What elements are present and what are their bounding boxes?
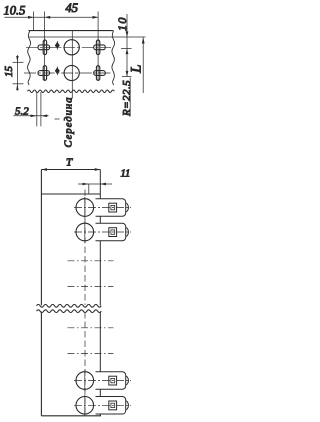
arrow 15 bottom xyxy=(16,84,18,90)
svg-text:10: 10 xyxy=(115,16,129,31)
arrow 11 right xyxy=(100,183,106,186)
arrow 5.2 right xyxy=(41,115,47,118)
hole circle top xyxy=(64,40,79,55)
strip bottom edge xyxy=(41,415,101,417)
tab 2 xyxy=(96,223,129,241)
contact hole circles xyxy=(76,199,94,217)
tab 3 xyxy=(96,372,129,390)
break wavy line upper xyxy=(37,304,102,307)
cross hole top-right xyxy=(94,40,106,55)
arrow 5.2 left xyxy=(31,115,37,118)
dimension 5.2 ext right xyxy=(40,92,42,126)
dimension 15 line xyxy=(16,55,18,91)
column centerline dashed lower xyxy=(84,312,86,414)
dimension 5.2 ext left xyxy=(36,92,38,126)
top view left break edge (wavy) xyxy=(28,31,31,85)
svg-text:15: 15 xyxy=(3,66,15,78)
arrow 11 left xyxy=(83,183,89,185)
arrow down at 76.5 xyxy=(126,71,129,77)
strip left edge upper xyxy=(40,170,42,306)
strip top edge with T dimension xyxy=(41,169,100,171)
arrow T right xyxy=(95,168,101,171)
arrow at x=44.6 pointing left xyxy=(45,16,51,19)
hole circle bottom xyxy=(64,65,79,80)
column centerline dashed upper xyxy=(84,190,86,306)
arrow up at 48.5 xyxy=(126,49,129,55)
tab 4 xyxy=(96,397,129,415)
svg-text:R=22.5: R=22.5 xyxy=(121,80,133,117)
top view right break edge (wavy) xyxy=(112,31,115,85)
arrow down at fold 37 xyxy=(126,31,129,37)
arrow at x=98.1 pointing right xyxy=(93,16,99,19)
rivet mark row1 xyxy=(55,42,60,49)
cross hole bottom-right xyxy=(94,66,106,81)
top view top edge xyxy=(29,30,114,32)
right holes column line xyxy=(97,12,99,82)
svg-text:45: 45 xyxy=(66,1,79,15)
dim line 5.2 xyxy=(31,115,49,117)
ext line 15 top xyxy=(13,61,24,63)
ext line 15 bottom xyxy=(13,83,24,85)
arrow T left xyxy=(41,168,47,171)
svg-text:11: 11 xyxy=(121,169,131,180)
extension line 10.5 left xyxy=(33,12,35,32)
dimension L line xyxy=(142,37,144,93)
svg-text:T: T xyxy=(66,157,73,169)
rivet mark row2 xyxy=(55,67,60,74)
dimension 10 and R line xyxy=(126,14,128,77)
underline 5.2 xyxy=(14,115,32,117)
hole row2 centerline xyxy=(24,72,111,74)
svg-text:Середина: Середина xyxy=(64,98,75,148)
arrow at x=33.6 pointing right xyxy=(28,16,34,19)
circles column centerline xyxy=(71,31,73,99)
break wavy line lower xyxy=(37,310,102,313)
svg-text:L: L xyxy=(129,64,145,73)
arrow 15 top xyxy=(16,56,18,62)
left holes column line xyxy=(44,12,46,82)
top view fold line xyxy=(29,36,146,38)
strip right edge segments xyxy=(99,170,101,416)
dim 11 line xyxy=(78,183,112,185)
top view bottom break line (wavy) xyxy=(28,90,115,93)
leader tick left of Середина xyxy=(55,118,60,120)
dim 11 ext line xyxy=(88,184,90,194)
dimension line 10.5 / 45 xyxy=(5,16,99,18)
omitted row centerlines xyxy=(68,260,114,262)
cross hole top-left xyxy=(38,40,50,55)
ext tick y=48.5 xyxy=(121,48,132,50)
strip fold line xyxy=(41,193,100,195)
tab 1 xyxy=(96,199,129,217)
circle vertical crosshairs xyxy=(84,197,86,218)
cross hole bottom-left xyxy=(38,66,50,81)
arrow L up xyxy=(142,37,145,43)
strip left edge lower xyxy=(40,312,42,416)
ext tick y=76.5 xyxy=(122,76,132,78)
underline of R=22.5 xyxy=(129,78,131,117)
hole row1 centerline xyxy=(26,46,111,48)
contact row centerlines (visible rows) xyxy=(74,207,131,209)
svg-text:10.5: 10.5 xyxy=(4,4,26,18)
